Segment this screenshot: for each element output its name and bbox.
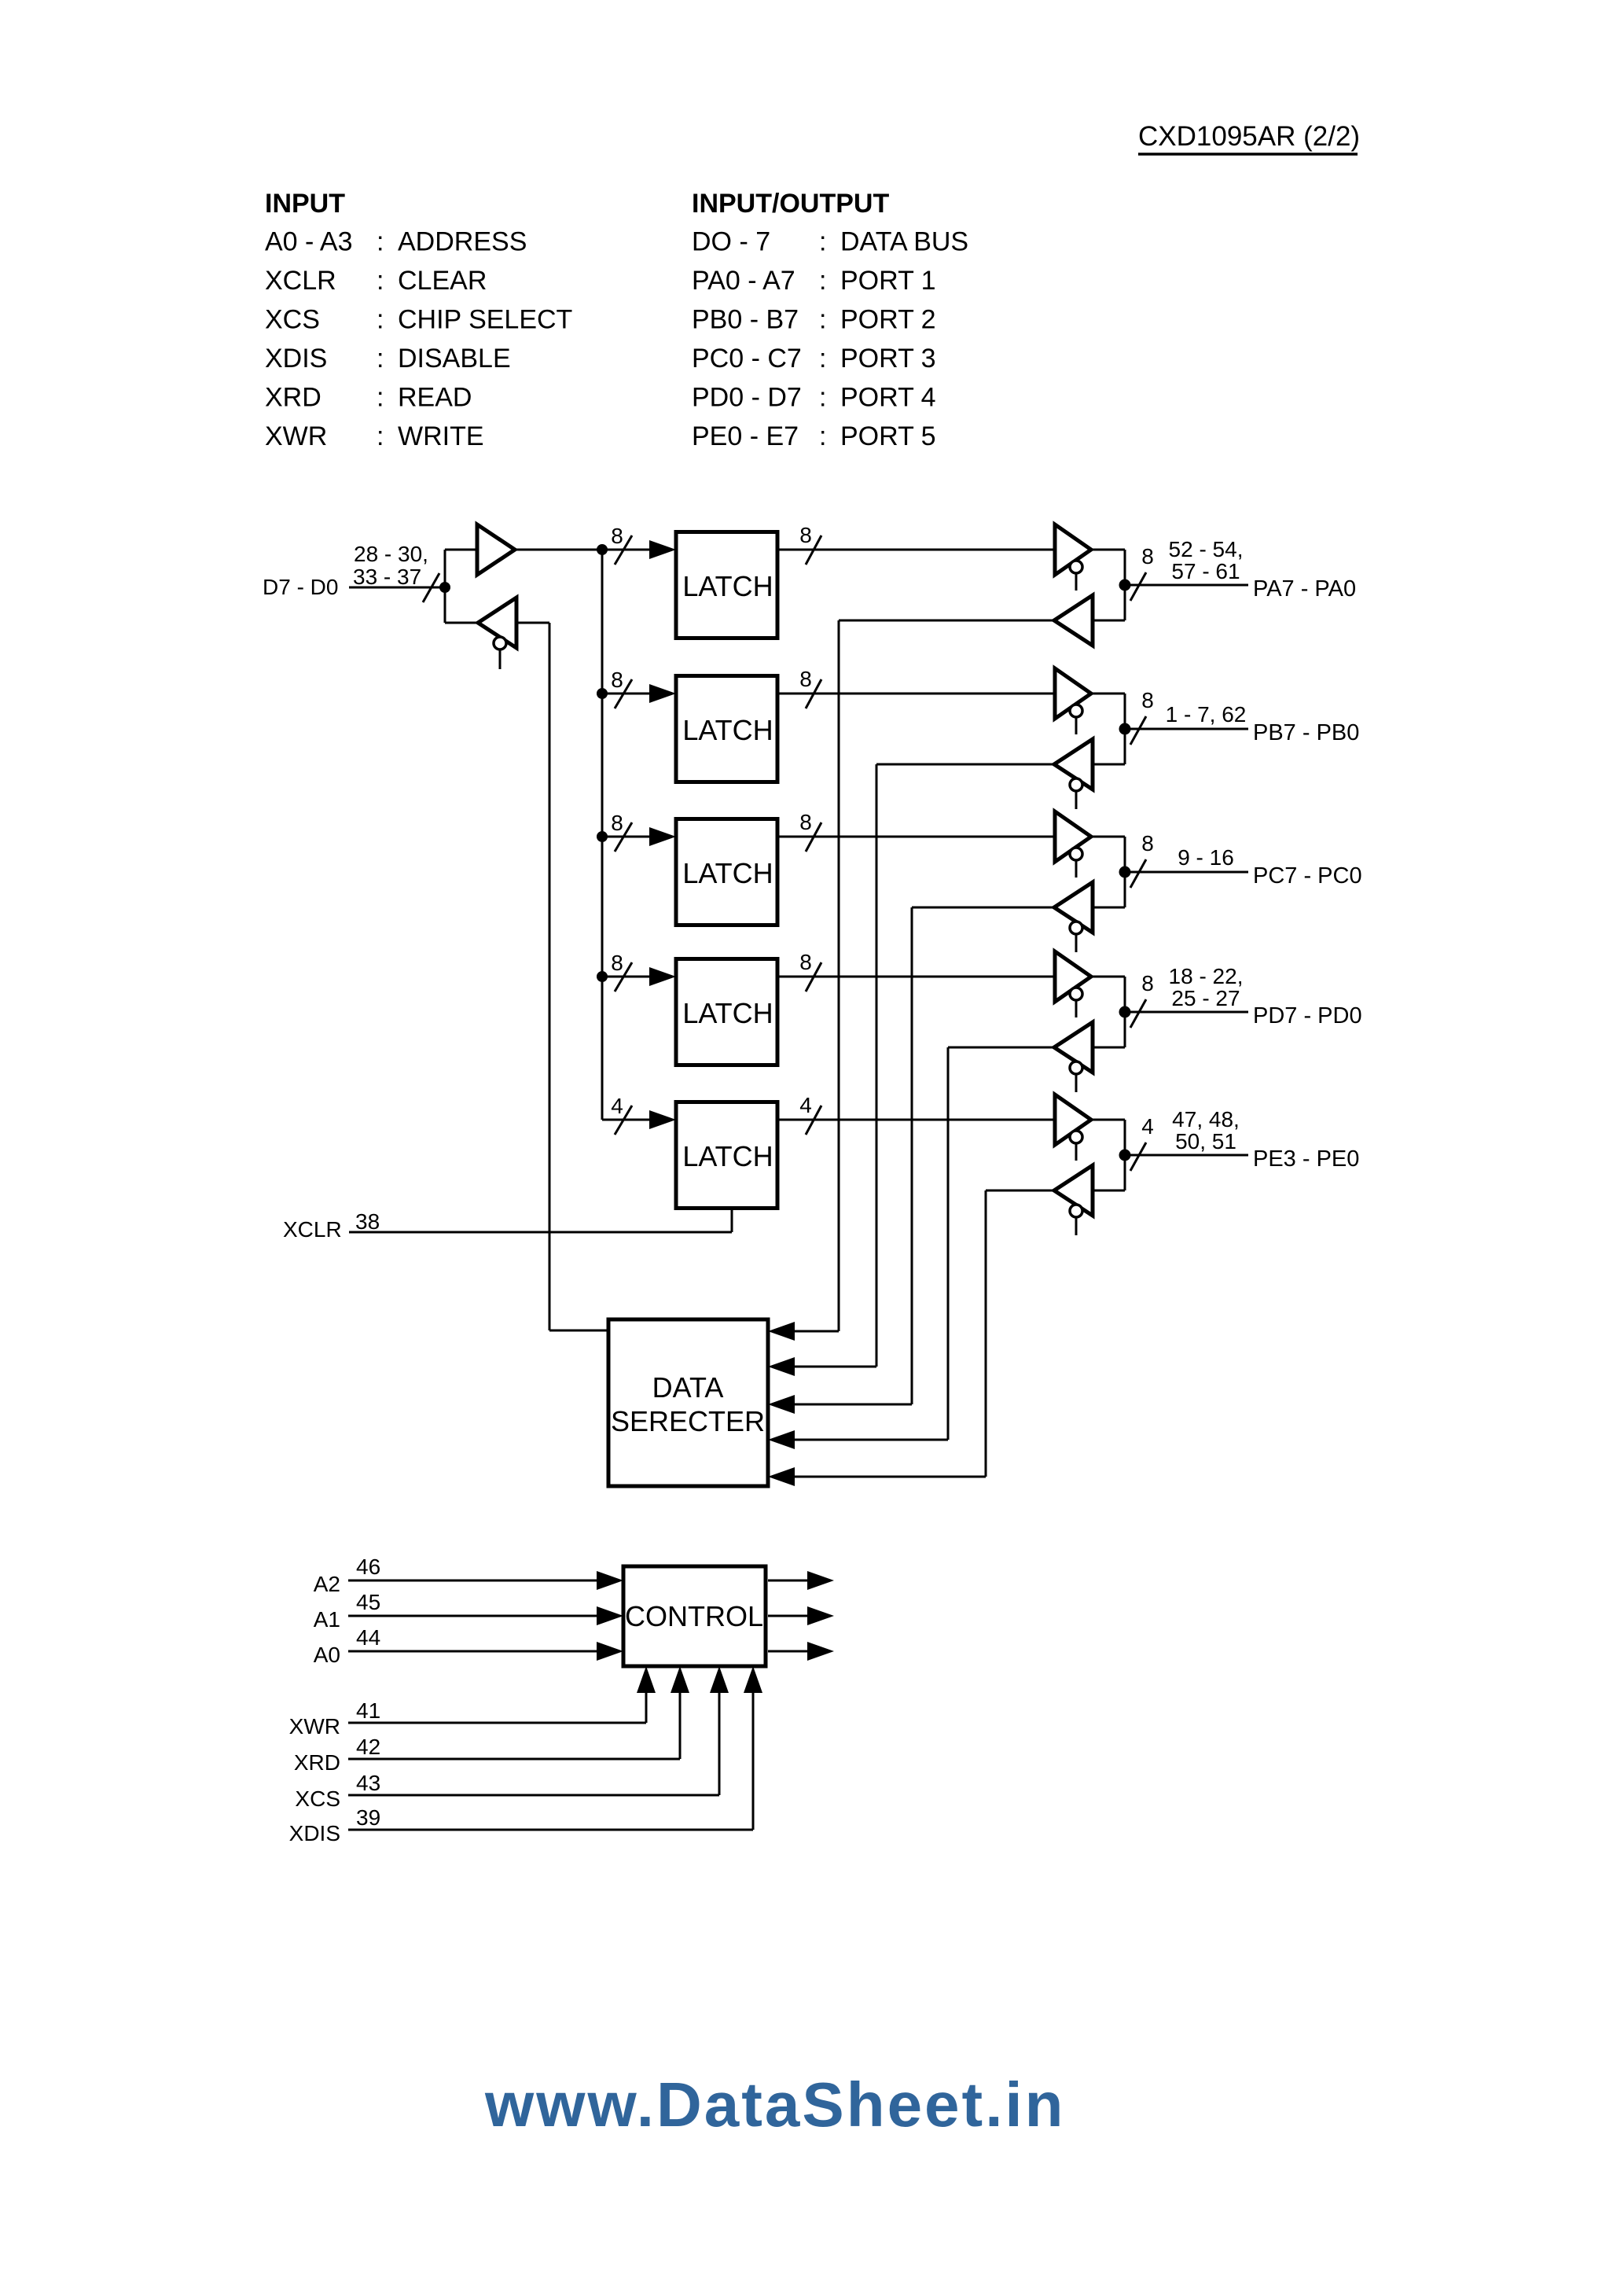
svg-text:PD0 - D7: PD0 - D7: [692, 383, 802, 413]
svg-text:LATCH: LATCH: [682, 997, 773, 1029]
svg-text:PORT 2: PORT 2: [840, 305, 936, 335]
svg-text:READ: READ: [398, 383, 472, 413]
svg-text:4: 4: [611, 1094, 623, 1118]
svg-text:8: 8: [1141, 688, 1154, 712]
svg-text:8: 8: [611, 951, 623, 975]
svg-text::: :: [819, 266, 826, 296]
svg-text:8: 8: [611, 524, 623, 548]
svg-text:28 - 30,: 28 - 30,: [354, 542, 428, 566]
svg-text:CHIP SELECT: CHIP SELECT: [398, 305, 572, 335]
svg-text::: :: [819, 305, 826, 335]
svg-text:45: 45: [356, 1590, 380, 1614]
svg-text:DATA: DATA: [652, 1371, 724, 1404]
svg-text:8: 8: [1141, 831, 1154, 855]
svg-text:D7 - D0: D7 - D0: [263, 575, 338, 599]
svg-text::: :: [819, 383, 826, 413]
svg-text:1 - 7, 62: 1 - 7, 62: [1166, 702, 1247, 727]
svg-text:8: 8: [611, 811, 623, 835]
svg-text:PE0 - E7: PE0 - E7: [692, 421, 799, 451]
svg-text:PC0 - C7: PC0 - C7: [692, 344, 802, 373]
svg-text:ADDRESS: ADDRESS: [398, 227, 527, 257]
svg-text:25 - 27: 25 - 27: [1171, 986, 1240, 1010]
svg-text:57 - 61: 57 - 61: [1171, 559, 1240, 583]
svg-text::: :: [377, 266, 384, 296]
svg-text:PORT 3: PORT 3: [840, 344, 936, 373]
svg-text:8: 8: [1141, 544, 1154, 568]
svg-text:18 - 22,: 18 - 22,: [1169, 964, 1244, 988]
svg-text::: :: [377, 421, 384, 451]
svg-text::: :: [377, 227, 384, 257]
svg-text:8: 8: [1141, 971, 1154, 995]
svg-text:LATCH: LATCH: [682, 714, 773, 746]
svg-text:8: 8: [799, 950, 812, 974]
svg-text:XDIS: XDIS: [265, 344, 327, 373]
svg-text:42: 42: [356, 1735, 380, 1759]
svg-text:PB0 - B7: PB0 - B7: [692, 305, 799, 335]
svg-text:PA0 - A7: PA0 - A7: [692, 266, 795, 296]
svg-text:8: 8: [799, 523, 812, 547]
svg-text:DISABLE: DISABLE: [398, 344, 511, 373]
svg-text:50, 51: 50, 51: [1175, 1129, 1236, 1154]
svg-text:XRD: XRD: [294, 1750, 340, 1775]
svg-text:LATCH: LATCH: [682, 1140, 773, 1172]
svg-text:A0: A0: [314, 1643, 340, 1667]
svg-text:PORT 5: PORT 5: [840, 421, 936, 451]
svg-text:4: 4: [1141, 1114, 1154, 1139]
svg-text:PB7 - PB0: PB7 - PB0: [1253, 720, 1359, 745]
svg-text:PA7 - PA0: PA7 - PA0: [1253, 576, 1356, 602]
svg-text:39: 39: [356, 1805, 380, 1830]
svg-text:A0 - A3: A0 - A3: [265, 227, 353, 257]
svg-text:XDIS: XDIS: [289, 1821, 340, 1845]
svg-text:52 - 54,: 52 - 54,: [1169, 537, 1244, 561]
svg-text:DO - 7: DO - 7: [692, 227, 770, 257]
svg-text:PC7 - PC0: PC7 - PC0: [1253, 863, 1362, 889]
svg-text::: :: [819, 421, 826, 451]
svg-text:PORT 1: PORT 1: [840, 266, 936, 296]
svg-text:XCLR: XCLR: [283, 1217, 342, 1242]
svg-text:8: 8: [799, 667, 812, 691]
svg-text:8: 8: [611, 668, 623, 692]
svg-text:DATA BUS: DATA BUS: [840, 227, 968, 257]
svg-text::: :: [377, 383, 384, 413]
svg-text:9 - 16: 9 - 16: [1178, 845, 1234, 870]
svg-text:XCS: XCS: [265, 305, 320, 335]
svg-text:41: 41: [356, 1698, 380, 1723]
svg-text:XWR: XWR: [265, 421, 327, 451]
svg-text::: :: [819, 227, 826, 257]
svg-text:PE3 - PE0: PE3 - PE0: [1253, 1146, 1359, 1172]
svg-text:XCLR: XCLR: [265, 266, 336, 296]
svg-text:PD7 - PD0: PD7 - PD0: [1253, 1003, 1362, 1028]
svg-text::: :: [377, 305, 384, 335]
svg-text:XRD: XRD: [265, 383, 321, 413]
svg-text:CLEAR: CLEAR: [398, 266, 487, 296]
svg-text:A2: A2: [314, 1572, 340, 1596]
svg-text:WRITE: WRITE: [398, 421, 484, 451]
svg-text:47, 48,: 47, 48,: [1172, 1107, 1240, 1131]
svg-text:33 - 37: 33 - 37: [353, 565, 421, 589]
svg-text::: :: [377, 344, 384, 373]
svg-text:46: 46: [356, 1555, 380, 1579]
svg-text:44: 44: [356, 1625, 380, 1650]
svg-text:XWR: XWR: [289, 1714, 340, 1739]
svg-text:CONTROL: CONTROL: [625, 1600, 763, 1632]
svg-text:INPUT/OUTPUT: INPUT/OUTPUT: [692, 189, 889, 219]
svg-text:4: 4: [799, 1093, 812, 1117]
svg-text:38: 38: [355, 1209, 380, 1234]
svg-text:LATCH: LATCH: [682, 570, 773, 602]
svg-text:SERECTER: SERECTER: [611, 1405, 765, 1437]
svg-text:www.DataSheet.in: www.DataSheet.in: [484, 2070, 1066, 2140]
svg-text:LATCH: LATCH: [682, 857, 773, 889]
svg-text:PORT 4: PORT 4: [840, 383, 936, 413]
svg-text:CXD1095AR (2/2): CXD1095AR (2/2): [1138, 121, 1360, 152]
svg-text::: :: [819, 344, 826, 373]
svg-text:43: 43: [356, 1771, 380, 1795]
svg-text:A1: A1: [314, 1607, 340, 1632]
svg-text:XCS: XCS: [295, 1786, 340, 1811]
svg-text:INPUT: INPUT: [265, 189, 345, 219]
svg-text:8: 8: [799, 810, 812, 834]
